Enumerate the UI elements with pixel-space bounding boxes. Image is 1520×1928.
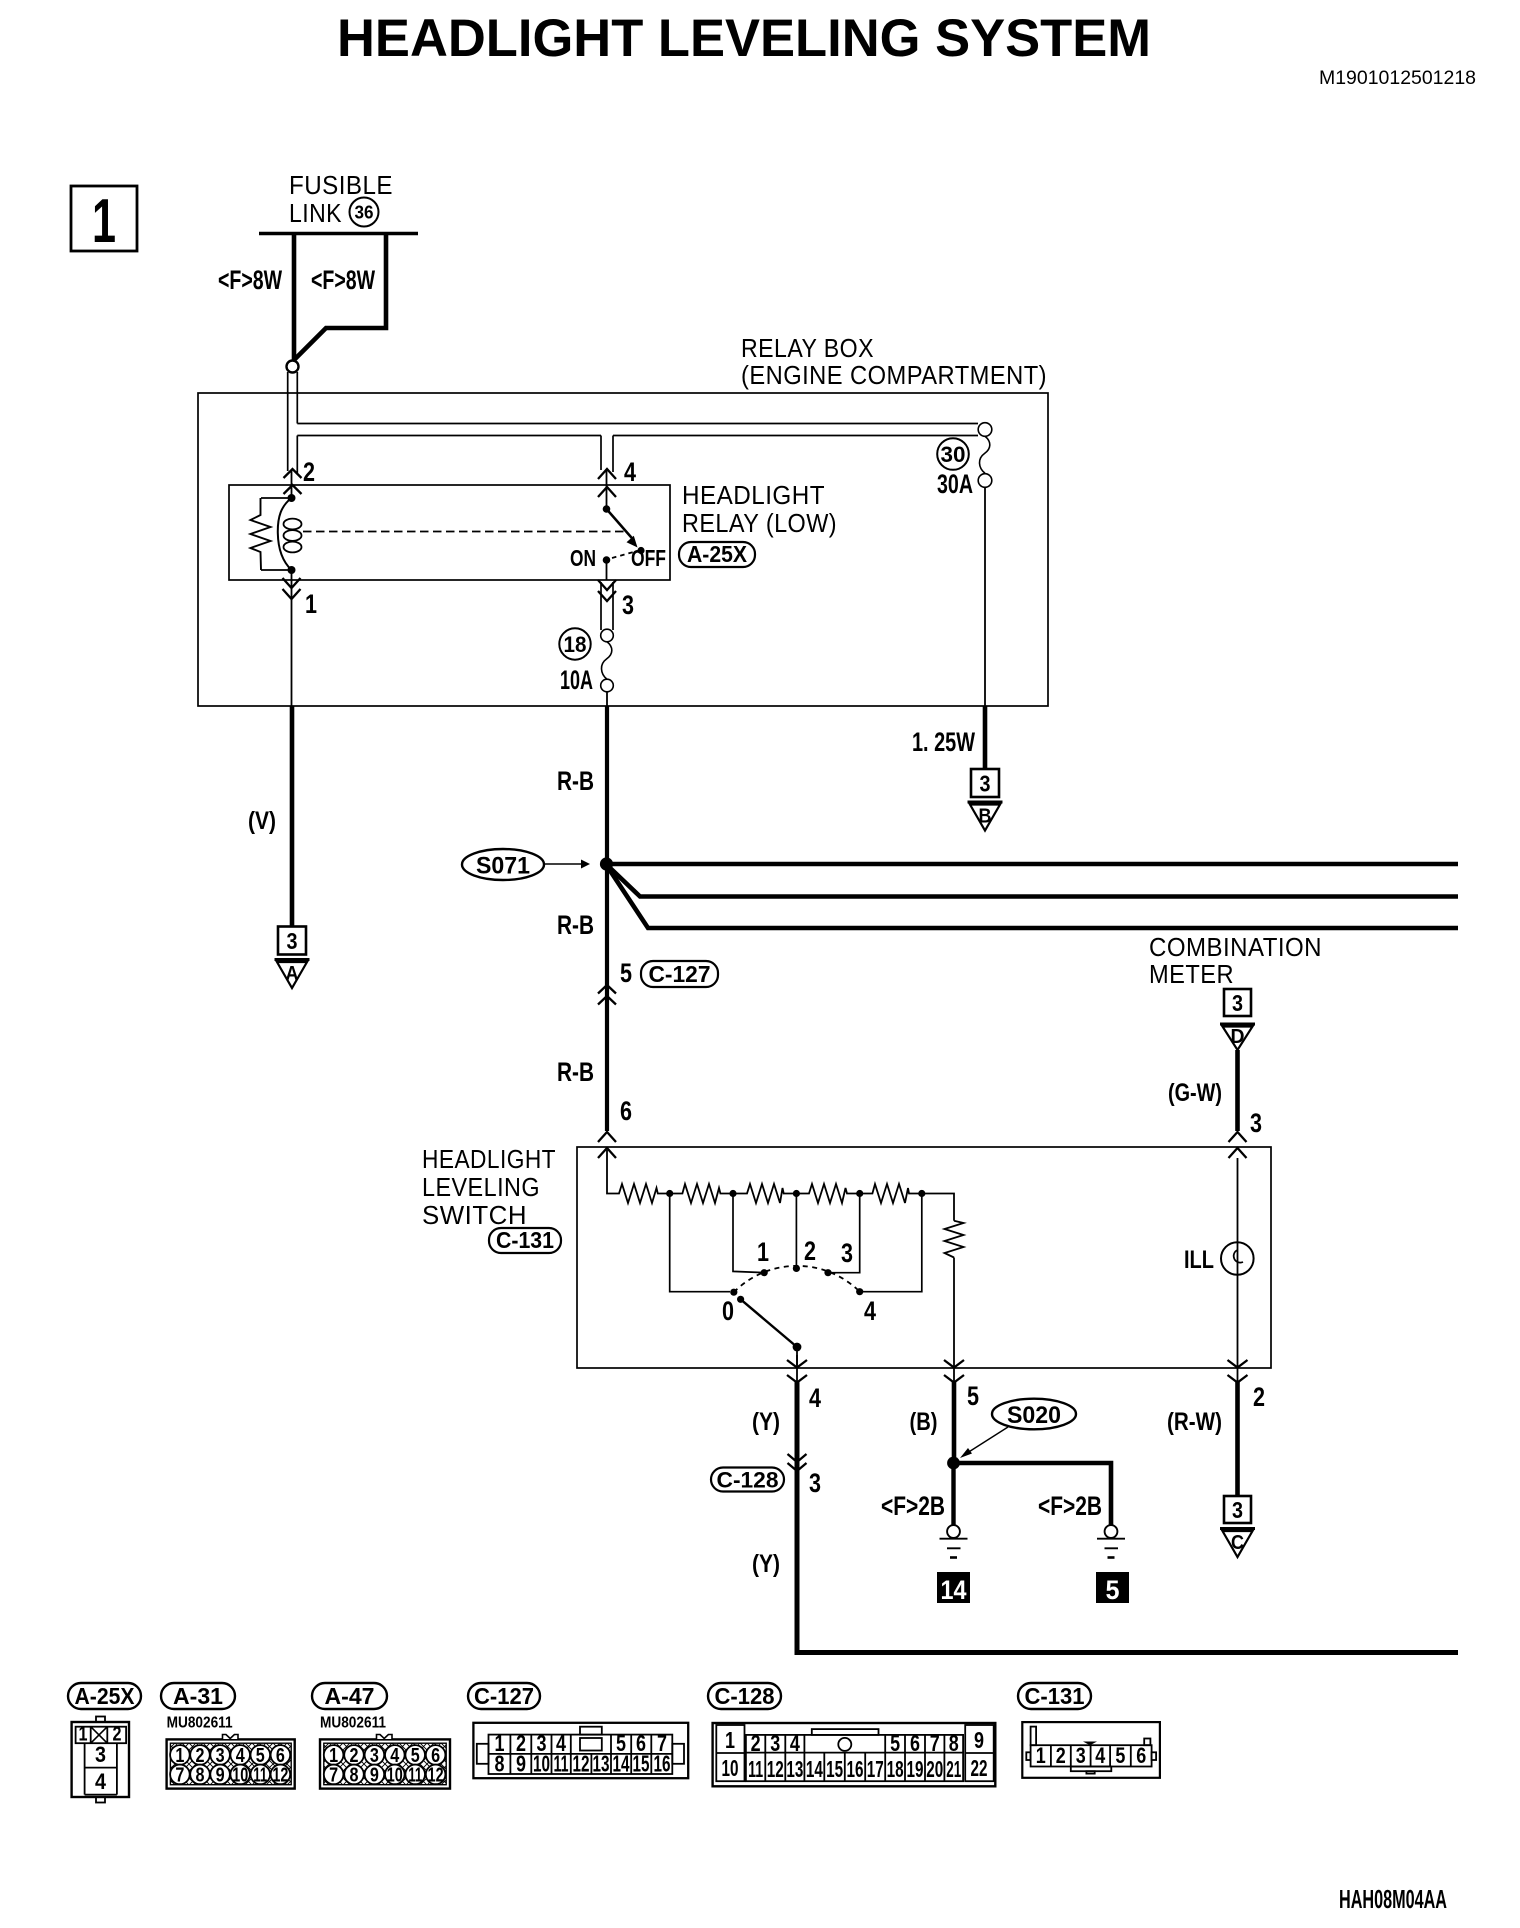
svg-text:HEADLIGHT LEVELING SYSTEM: HEADLIGHT LEVELING SYSTEM xyxy=(337,9,1151,68)
svg-text:3: 3 xyxy=(1250,1108,1262,1138)
svg-text:36: 36 xyxy=(355,203,374,223)
headlight relay (low) inner box xyxy=(229,485,670,580)
relay coil top node xyxy=(288,494,296,502)
bus wire 3 from splice xyxy=(607,866,1458,928)
svg-text:1: 1 xyxy=(1036,1743,1046,1768)
fuse 18 element xyxy=(601,629,614,642)
svg-text:1: 1 xyxy=(757,1237,769,1267)
relay switch arm xyxy=(607,509,635,541)
connector A-31 label xyxy=(161,1683,235,1709)
svg-text:10: 10 xyxy=(533,1751,550,1777)
svg-text:12: 12 xyxy=(428,1765,444,1787)
relay coil xyxy=(278,498,292,570)
svg-text:3: 3 xyxy=(1232,990,1243,1016)
relay ON contact xyxy=(603,556,611,564)
tap wire 3 xyxy=(831,1194,860,1273)
svg-text:10A: 10A xyxy=(560,665,593,695)
svg-text:4: 4 xyxy=(790,1730,800,1756)
svg-text:<F>8W: <F>8W xyxy=(311,265,375,295)
svg-text:C: C xyxy=(1231,1532,1244,1554)
hollow wire pin3 to fuse 18 xyxy=(600,582,602,630)
svg-text:4: 4 xyxy=(864,1296,876,1326)
svg-text:1: 1 xyxy=(79,1724,88,1746)
svg-text:13: 13 xyxy=(786,1756,803,1782)
node 3 tap xyxy=(856,1190,863,1197)
resistor ladder R4 xyxy=(796,1184,859,1203)
svg-text:OFF: OFF xyxy=(631,545,666,571)
fusible link bus bar xyxy=(259,232,418,235)
wire to pulldown resistor xyxy=(922,1194,954,1221)
svg-text:LEVELING: LEVELING xyxy=(422,1172,540,1202)
svg-text:7: 7 xyxy=(175,1765,184,1787)
tap wire 2 xyxy=(795,1194,797,1266)
svg-text:LINK: LINK xyxy=(289,198,342,228)
connector ref C-128 xyxy=(711,1468,784,1492)
wire 1.25W from fuse 30 to ground B xyxy=(983,706,988,769)
relay armature dashed link xyxy=(303,531,627,533)
hollow branch to relay pin 4 xyxy=(600,436,602,471)
svg-text:C-128: C-128 xyxy=(715,1683,775,1709)
pulldown resistor xyxy=(945,1221,964,1258)
svg-text:16: 16 xyxy=(654,1751,671,1777)
relay coil bottom node xyxy=(288,566,296,574)
svg-text:3: 3 xyxy=(287,928,298,954)
svg-text:9: 9 xyxy=(370,1765,379,1787)
rotary contact 3 xyxy=(824,1269,831,1276)
svg-text:RELAY BOX: RELAY BOX xyxy=(741,333,874,363)
connector A-25X label xyxy=(68,1683,141,1709)
svg-text:0: 0 xyxy=(722,1296,734,1326)
wire Y from switch pin4 down and right xyxy=(797,1382,1458,1653)
switch exit chevrons pin 5 xyxy=(944,1360,964,1368)
svg-text:A-47: A-47 xyxy=(325,1683,375,1709)
svg-text:(Y): (Y) xyxy=(752,1550,780,1578)
svg-text:5: 5 xyxy=(967,1381,979,1411)
node 2 tap xyxy=(793,1190,800,1197)
connector A-47 drawing xyxy=(320,1735,450,1789)
fusible link lead F8W left xyxy=(292,233,297,360)
rotary contact 4 xyxy=(856,1288,863,1295)
svg-text:S020: S020 xyxy=(1007,1402,1061,1429)
connector bulb at fusible link junction xyxy=(287,361,299,373)
svg-text:SWITCH: SWITCH xyxy=(422,1200,527,1230)
C-127 inline connector chevrons xyxy=(598,985,616,994)
svg-text:MU802611: MU802611 xyxy=(167,1715,233,1732)
svg-text:21: 21 xyxy=(946,1756,961,1782)
svg-text:4: 4 xyxy=(95,1769,107,1794)
svg-text:R-B: R-B xyxy=(557,766,594,796)
G-W entry chevrons xyxy=(1229,1132,1247,1142)
svg-text:METER: METER xyxy=(1149,959,1234,989)
page ref D from combination meter xyxy=(1224,989,1251,1016)
svg-text:8: 8 xyxy=(495,1751,505,1777)
svg-text:3: 3 xyxy=(95,1742,106,1767)
wire B from switch pin5 xyxy=(952,1382,957,1463)
relay resistor xyxy=(261,497,292,499)
bus wire 2 from splice xyxy=(607,865,1458,897)
ground symbol A xyxy=(278,927,306,955)
resistor ladder R1 xyxy=(617,1184,670,1203)
svg-text:18: 18 xyxy=(887,1756,904,1782)
svg-text:7: 7 xyxy=(329,1765,338,1787)
svg-text:<F>8W: <F>8W xyxy=(218,265,282,295)
splice node S071 xyxy=(600,857,613,870)
pin 6 entry chevrons xyxy=(598,1132,616,1142)
svg-text:16: 16 xyxy=(847,1756,864,1782)
svg-text:15: 15 xyxy=(633,1751,650,1777)
svg-text:15: 15 xyxy=(826,1756,843,1782)
rotary contact 2 xyxy=(793,1265,800,1272)
svg-text:2: 2 xyxy=(303,457,315,487)
svg-text:2: 2 xyxy=(113,1724,122,1746)
svg-text:FUSIBLE: FUSIBLE xyxy=(289,170,393,200)
connector ref C-131 xyxy=(489,1228,561,1253)
svg-text:17: 17 xyxy=(867,1756,884,1782)
rotary contact 1 xyxy=(761,1269,768,1276)
connector ref A-25X xyxy=(679,542,755,567)
connector A-25X drawing xyxy=(72,1717,129,1803)
svg-text:3: 3 xyxy=(1232,1497,1243,1523)
resistor ladder R3 xyxy=(733,1184,796,1203)
svg-text:2: 2 xyxy=(1253,1382,1265,1412)
svg-text:1: 1 xyxy=(725,1727,735,1753)
wire pin4 to switch contact xyxy=(606,470,608,509)
tap wire 0 xyxy=(670,1194,730,1292)
svg-text:20: 20 xyxy=(926,1756,943,1782)
svg-text:3: 3 xyxy=(770,1730,780,1756)
node 4 tap xyxy=(918,1190,925,1197)
wire resistor to pin 5 xyxy=(953,1258,955,1384)
svg-text:(Y): (Y) xyxy=(752,1408,780,1436)
rotary contact 0 xyxy=(730,1289,737,1296)
connector A-31 drawing xyxy=(167,1735,295,1789)
fuse 30 element xyxy=(978,423,992,437)
wire R-B from fuse 18 down to splice xyxy=(605,706,609,864)
svg-text:10: 10 xyxy=(387,1765,403,1787)
switch exit chevrons pin 2 xyxy=(1228,1360,1248,1368)
svg-text:2: 2 xyxy=(1056,1743,1066,1768)
svg-text:4: 4 xyxy=(809,1383,821,1413)
wire R-W from switch pin2 to C xyxy=(1235,1382,1240,1496)
svg-text:11: 11 xyxy=(253,1765,267,1787)
connector C-127 drawing xyxy=(473,1723,688,1778)
svg-text:8: 8 xyxy=(196,1765,205,1787)
svg-text:12: 12 xyxy=(573,1751,590,1777)
splice label S020 xyxy=(992,1399,1076,1430)
svg-text:COMBINATION: COMBINATION xyxy=(1149,932,1322,962)
svg-text:7: 7 xyxy=(930,1730,940,1756)
svg-text:C-127: C-127 xyxy=(474,1683,534,1709)
resistor ladder R5 xyxy=(860,1184,922,1203)
svg-text:M1901012501218: M1901012501218 xyxy=(1319,68,1476,89)
pin 1 chevrons xyxy=(283,578,301,588)
svg-text:5: 5 xyxy=(1115,1743,1125,1768)
ground symbol 5 xyxy=(1105,1525,1118,1538)
hollow bus wire bottom edge xyxy=(297,435,601,437)
svg-text:1. 25W: 1. 25W xyxy=(912,727,975,757)
splice node S020 xyxy=(947,1457,960,1470)
svg-text:9: 9 xyxy=(974,1727,984,1753)
svg-text:4: 4 xyxy=(624,457,636,487)
svg-text:(V): (V) xyxy=(248,807,276,835)
svg-text:(R-W): (R-W) xyxy=(1167,1408,1222,1436)
svg-text:RELAY (LOW): RELAY (LOW) xyxy=(682,508,837,538)
svg-text:MU802611: MU802611 xyxy=(320,1715,386,1732)
svg-text:18: 18 xyxy=(564,632,587,657)
svg-text:(G-W): (G-W) xyxy=(1168,1079,1222,1107)
svg-text:30A: 30A xyxy=(937,469,973,499)
page number box 1 xyxy=(71,186,137,251)
rotary dashed arc xyxy=(734,1266,860,1292)
svg-text:4: 4 xyxy=(1095,1743,1106,1768)
svg-text:8: 8 xyxy=(949,1730,959,1756)
svg-text:14: 14 xyxy=(613,1751,630,1777)
svg-text:1: 1 xyxy=(305,589,317,619)
fusible link lead F8W right xyxy=(295,233,386,359)
hollow wire from fusible link to relay pin 2 xyxy=(287,372,289,471)
svg-text:D: D xyxy=(1231,1026,1245,1048)
svg-text:3: 3 xyxy=(1076,1743,1086,1768)
svg-text:2: 2 xyxy=(804,1236,816,1266)
svg-text:C-131: C-131 xyxy=(496,1227,554,1253)
headlight leveling switch box xyxy=(577,1147,1271,1368)
svg-text:9: 9 xyxy=(216,1765,225,1787)
wiper arm xyxy=(737,1296,744,1303)
connector A-47 label xyxy=(312,1683,387,1709)
svg-text:C-127: C-127 xyxy=(649,961,711,987)
svg-text:10: 10 xyxy=(232,1765,248,1787)
svg-text:ON: ON xyxy=(570,545,596,571)
svg-text:14: 14 xyxy=(941,1575,967,1605)
svg-text:5: 5 xyxy=(620,958,632,988)
svg-text:30: 30 xyxy=(941,442,966,467)
svg-text:S071: S071 xyxy=(476,853,530,880)
circled fuse number 30 xyxy=(937,438,969,470)
C-128 inline chevrons on Y wire xyxy=(788,1454,807,1462)
wire pin6 to resistor ladder xyxy=(607,1150,617,1194)
wire ON contact to pin 3 xyxy=(606,560,608,580)
svg-text:22: 22 xyxy=(971,1755,988,1781)
svg-text:1: 1 xyxy=(92,187,116,256)
fusible link circled 36 xyxy=(350,198,379,227)
connector C-127 label xyxy=(468,1683,540,1709)
svg-text:B: B xyxy=(979,806,992,828)
wire V from relay pin1 to ground A xyxy=(290,706,295,927)
svg-text:3: 3 xyxy=(980,771,991,797)
svg-text:A-25X: A-25X xyxy=(75,1683,136,1709)
ground branch wires xyxy=(951,1463,955,1525)
svg-text:6: 6 xyxy=(620,1096,632,1126)
svg-text:C-128: C-128 xyxy=(717,1468,779,1493)
svg-text:11: 11 xyxy=(748,1756,763,1782)
connector C-128 drawing xyxy=(713,1723,996,1786)
svg-text:A: A xyxy=(286,963,299,985)
relay box (engine compartment) outline xyxy=(198,393,1048,706)
tap wire 4 xyxy=(863,1194,922,1292)
pin 2 chevron xyxy=(284,469,302,478)
connector ref C-127 xyxy=(641,961,718,987)
switch exit chevrons pin 4 xyxy=(787,1360,807,1368)
pin 1 wire below coil xyxy=(291,570,293,580)
svg-text:12: 12 xyxy=(272,1765,288,1787)
svg-text:13: 13 xyxy=(593,1751,610,1777)
node 1 tap xyxy=(729,1190,736,1197)
pin 3 chevrons xyxy=(598,580,616,590)
svg-text:19: 19 xyxy=(907,1756,924,1782)
svg-text:8: 8 xyxy=(350,1765,359,1787)
svg-text:R-B: R-B xyxy=(557,910,594,940)
svg-text:C-131: C-131 xyxy=(1025,1683,1085,1709)
connector C-131 label xyxy=(1018,1683,1091,1709)
ground symbol B xyxy=(971,769,999,797)
svg-text:3: 3 xyxy=(809,1468,821,1498)
splice label S071 xyxy=(462,849,544,880)
connector C-128 label xyxy=(708,1683,781,1709)
svg-text:<F>2B: <F>2B xyxy=(881,1491,945,1521)
pin 4 chevrons xyxy=(598,469,616,479)
relay switch fixed contact (pin4) xyxy=(603,505,611,513)
svg-text:12: 12 xyxy=(767,1756,784,1782)
bus wire 1 from splice xyxy=(607,862,1459,867)
wire G-W from D to switch xyxy=(1235,1050,1240,1131)
node 0 tap xyxy=(666,1190,673,1197)
svg-text:5: 5 xyxy=(1106,1575,1120,1605)
svg-text:6: 6 xyxy=(910,1730,920,1756)
circled fuse number 18 xyxy=(559,628,590,659)
svg-text:A-31: A-31 xyxy=(173,1683,223,1709)
svg-text:9: 9 xyxy=(516,1751,526,1777)
svg-text:(B): (B) xyxy=(910,1408,938,1436)
ground symbol 14 xyxy=(947,1525,960,1538)
page ref C xyxy=(1224,1496,1251,1523)
svg-text:14: 14 xyxy=(806,1756,823,1782)
svg-text:6: 6 xyxy=(1136,1743,1146,1768)
connector C-131 drawing xyxy=(1022,1722,1160,1778)
svg-text:5: 5 xyxy=(890,1730,900,1756)
svg-text:HEADLIGHT: HEADLIGHT xyxy=(422,1144,556,1174)
hollow bus wire top edge xyxy=(297,423,978,425)
svg-text:3: 3 xyxy=(622,590,634,620)
svg-text:ILL: ILL xyxy=(1184,1246,1214,1274)
svg-text:<F>2B: <F>2B xyxy=(1038,1491,1102,1521)
resistor ladder R2 xyxy=(670,1184,733,1203)
svg-text:11: 11 xyxy=(408,1765,422,1787)
svg-text:2: 2 xyxy=(751,1730,761,1756)
svg-text:HEADLIGHT: HEADLIGHT xyxy=(682,480,825,510)
svg-text:3: 3 xyxy=(841,1238,853,1268)
svg-text:11: 11 xyxy=(554,1751,569,1777)
wire R-B below splice xyxy=(605,864,609,1131)
svg-text:A-25X: A-25X xyxy=(687,541,748,567)
wire pin2 into relay coil xyxy=(291,470,293,498)
svg-text:10: 10 xyxy=(722,1755,739,1781)
tap wire 1 xyxy=(733,1194,761,1273)
svg-text:R-B: R-B xyxy=(557,1057,594,1087)
dashed off position xyxy=(612,551,637,558)
svg-text:HAH08M04AA: HAH08M04AA xyxy=(1339,1884,1447,1914)
svg-text:(ENGINE COMPARTMENT): (ENGINE COMPARTMENT) xyxy=(741,360,1047,390)
